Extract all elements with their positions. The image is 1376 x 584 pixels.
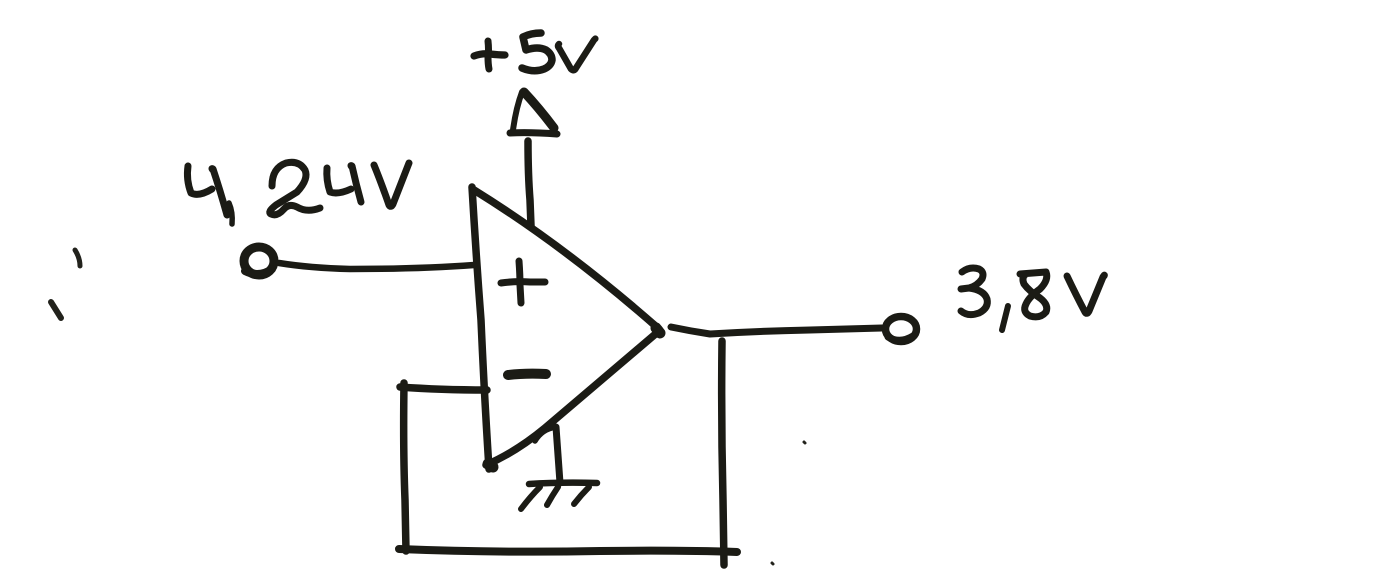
wire input to + xyxy=(279,263,474,269)
node input terminal xyxy=(244,247,274,275)
wire feedback bottom xyxy=(399,549,737,552)
wire feedback top to - input xyxy=(400,387,487,390)
wire output xyxy=(671,327,882,334)
wire feedback vertical from output xyxy=(722,341,724,565)
label 4,24V xyxy=(187,162,409,224)
ground xyxy=(521,427,597,509)
power supply arrow xyxy=(510,92,557,134)
label 3,8V xyxy=(961,268,1104,330)
power label +5V xyxy=(474,33,595,71)
op-amp - input marking xyxy=(508,374,546,375)
op-amp U1 xyxy=(472,187,660,469)
wire feedback left vertical xyxy=(404,383,406,551)
op-amp + input marking xyxy=(501,261,545,303)
wire power stem xyxy=(528,141,531,226)
node output terminal xyxy=(886,317,917,342)
